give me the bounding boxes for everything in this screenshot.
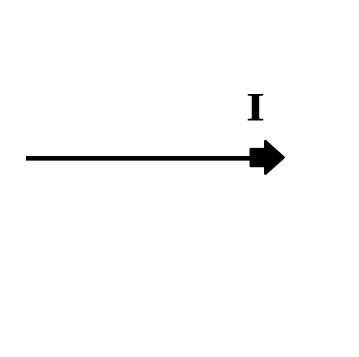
wire <box>26 156 252 161</box>
svg-text:I: I <box>246 85 265 129</box>
current direction arrowhead <box>251 141 284 173</box>
